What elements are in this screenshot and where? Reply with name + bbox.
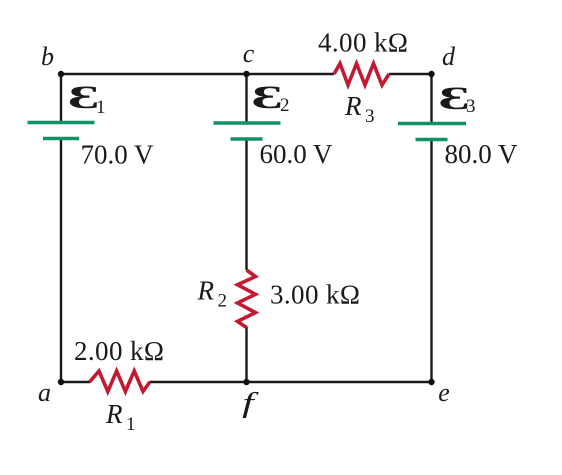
wire R1 to f (bottom horizontal) (150, 381, 247, 383)
svg-text:1: 1 (126, 414, 136, 435)
battery E2 long plate (214, 121, 281, 125)
svg-text:2: 2 (218, 291, 228, 312)
svg-text:Ɛ: Ɛ (438, 80, 469, 116)
svg-text:3: 3 (466, 96, 476, 117)
wire a to R1 (bottom horizontal) (61, 381, 90, 383)
node d dot (428, 71, 434, 77)
wire d down to battery E3 (430, 74, 432, 123)
svg-text:3.00 kΩ: 3.00 kΩ (270, 280, 360, 310)
svg-text:R: R (105, 399, 123, 429)
battery E3 long plate (398, 122, 466, 126)
svg-text:Ɛ: Ɛ (251, 79, 282, 115)
wire R2 down to f (245, 327, 247, 383)
svg-text:4.00 kΩ: 4.00 kΩ (318, 28, 408, 58)
svg-text:d: d (442, 42, 456, 71)
node f dot (243, 379, 249, 385)
svg-text:2.00 kΩ: 2.00 kΩ (74, 336, 164, 366)
svg-text:1: 1 (96, 97, 106, 118)
wire R3 to d (top horizontal) (389, 73, 432, 75)
node a dot (58, 379, 64, 385)
resistor R1 zigzag (90, 371, 150, 392)
node b dot (58, 71, 64, 77)
wire b down to battery E1 (60, 74, 62, 123)
battery E1 short plate (43, 137, 79, 141)
svg-text:2: 2 (280, 95, 290, 116)
svg-text:Ɛ: Ɛ (68, 79, 99, 115)
svg-text:f: f (242, 387, 260, 418)
battery E1 long plate (28, 121, 95, 125)
wire c to R3 (top horizontal) (247, 73, 335, 75)
svg-text:c: c (243, 39, 255, 68)
svg-text:e: e (438, 378, 450, 407)
node c dot (243, 71, 249, 77)
node e dot (428, 379, 434, 385)
wire b to c (top left horizontal) (61, 73, 247, 75)
battery E3 short plate (416, 138, 448, 142)
svg-text:a: a (38, 378, 51, 407)
wire battery E2 down to R2 (245, 139, 247, 270)
svg-text:80.0 V: 80.0 V (445, 139, 519, 169)
wire battery E1 down to a (60, 139, 62, 382)
wire f to e (bottom horizontal) (247, 381, 432, 383)
svg-text:R: R (197, 276, 215, 306)
wire battery E3 down to e (430, 140, 432, 383)
resistor R2 zigzag (238, 270, 256, 328)
svg-text:3: 3 (365, 106, 375, 127)
resistor R3 zigzag (334, 64, 389, 86)
battery E2 short plate (231, 137, 263, 141)
svg-text:R: R (344, 91, 362, 121)
svg-text:70.0 V: 70.0 V (81, 140, 155, 170)
wire c down to battery E2 (245, 74, 247, 123)
svg-text:b: b (41, 42, 54, 71)
svg-text:60.0 V: 60.0 V (260, 139, 334, 169)
